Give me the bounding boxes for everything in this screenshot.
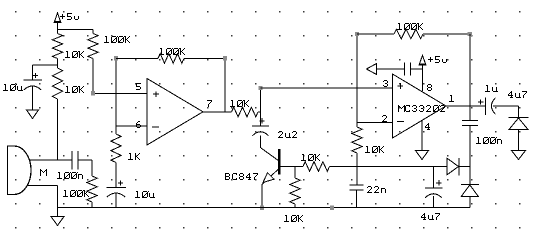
label pin 3 [383,80,388,87]
capacitor C9 4u7 (AGC hold) [425,167,443,198]
label pin 8 [427,84,432,91]
ground (main rail) [51,217,64,226]
resistor R6 1K (op1 gain) [111,134,121,164]
label 100K R4 [63,190,89,197]
microphone M [8,146,32,195]
resistor R9 10K (base series) [295,162,330,172]
ground (under D4) [512,151,526,160]
wire feedback left vertical [115,58,117,134]
wire C9 to ground rail [433,196,435,208]
node rail junction (unlabeled) [330,205,334,209]
wire pin8 supply [422,65,424,91]
wire ground rail [58,207,470,209]
node feedback2 left corner [355,32,359,36]
wire mic bottom terminal [28,186,58,208]
node feedback right corner [223,56,227,60]
wire output node down [518,106,520,118]
label pin 2 [382,115,387,122]
wire D2 to ground rail [469,196,471,207]
wire node A to op2 pin3 [261,87,393,89]
label MC33202 [398,105,445,112]
node Q1 emitter junction [260,205,264,209]
resistor R1 10K (upper divider) [52,30,62,66]
capacitor C1 10u (divider bypass) [23,65,42,90]
wire node to C4 [260,112,262,126]
wire mic top terminal [30,159,72,161]
power +5v supply arrow (op2) [420,55,426,64]
label 100K R10 [397,23,423,30]
label 2u2 C4 [278,131,297,138]
capacitor C3 10u (gain block) [106,164,126,198]
wire C3 to ground rail [115,193,117,208]
diode D4 (output clamp) [509,117,529,119]
resistor R4 100K (mic load) [87,176,97,208]
label 1u C8 [485,85,498,92]
label M [40,169,47,176]
label 10K R2 [65,86,84,93]
label 100n C7 [476,137,502,144]
diode D1 (AGC series) [447,158,459,175]
capacitor C7 100n (output filter) [462,106,478,125]
label +5v (left) [60,13,79,20]
label pin 5 [136,83,141,90]
label BC847 [225,173,258,180]
ground (pin 4) [416,151,429,160]
wire D1 cathode to node B [459,166,470,168]
wire pin6 input [116,125,147,127]
wire C4 to Q1 collector [260,136,262,148]
wire op2 output pin1 [446,105,486,107]
wire D4 to ground [518,130,520,151]
capacitor C5 22n (gain block) [350,184,364,186]
power +5v supply arrow (left) [54,13,62,30]
ground (left-pointing, bypass) [367,64,377,75]
diode D2 (AGC shunt) [461,183,479,185]
node pin5 junction [91,91,95,95]
wire base network to diode D1 [330,166,448,168]
wire pin5 input [93,92,147,94]
wire pin2 node vertical [356,34,358,127]
wire C2 to R4 [78,160,92,176]
wire C7 to diode node [469,125,471,184]
label 100n C2 [57,172,83,179]
resistor R8 10K (base to gnd) [290,167,300,208]
label 4u7 C9 [421,213,440,220]
capacitor C8 1u (output coupling) [485,97,487,115]
wire C8 to output node [493,105,519,107]
wire feedback2 right vertical [469,34,471,106]
op-amp U1A (pins 5,6,7) [147,79,203,146]
label 10u C1 [3,84,23,91]
resistor R5 100K (op1 feedback) [116,54,225,64]
resistor R10 100K (op2 feedback) [357,29,470,39]
wire pin4 to ground [421,121,423,150]
resistor R3 100K (to pin5 node) [88,30,98,94]
wire output up to node A [260,88,262,112]
label +5v (op2) [428,56,447,63]
resistor R2 10K (lower divider) [52,65,62,160]
wire +5v rail to 100K R3 top [58,29,94,31]
capacitor C6 100n (supply bypass) [405,63,423,76]
transistor Q1 BC847 [261,148,279,208]
label pin 1 [449,95,454,102]
wire op1 output [203,111,232,113]
label pin 4 [425,123,430,130]
label pin 7 [207,100,212,107]
node feedback left corner [114,56,118,60]
label 10K R8 [284,215,303,222]
node A corner [258,86,262,90]
label 1K R6 [128,153,140,160]
resistor R11 10K (op2 gain) [352,127,362,153]
node feedback2 right corner [468,32,472,36]
op-amp U1B MC33202 (pins 3,2,1) [393,74,447,138]
wire C1 to ground [32,86,34,111]
label pin 6 [136,121,141,128]
capacitor C2 100n (mic coupling) [71,151,73,170]
wire R11 to C5 [356,153,358,185]
label 100K R3 [104,36,130,43]
wire pin2 input [357,122,393,124]
label 10K R1 [65,51,84,58]
label 10K R7 [230,100,249,107]
capacitor C4 2u2 (coupling to Q1) [252,125,269,127]
label 10K R9 [301,154,320,161]
ground (under C1) [27,110,39,119]
label 22n C5 [367,186,386,193]
label 4u7 (top right) [508,91,527,98]
wire Q1 base [279,166,295,168]
label 10K R11 [365,146,384,153]
wire rail to ground symbol [57,208,59,217]
wire feedback right vertical [224,58,226,112]
label 10u C3 [135,191,155,198]
wire C6 to ground arrow [377,68,405,70]
wire divider midpoint to C1 [33,64,58,66]
label 100K R5 [159,48,185,55]
wire C5 to ground rail [356,190,358,208]
resistor R7 10K (output series) [232,107,261,117]
